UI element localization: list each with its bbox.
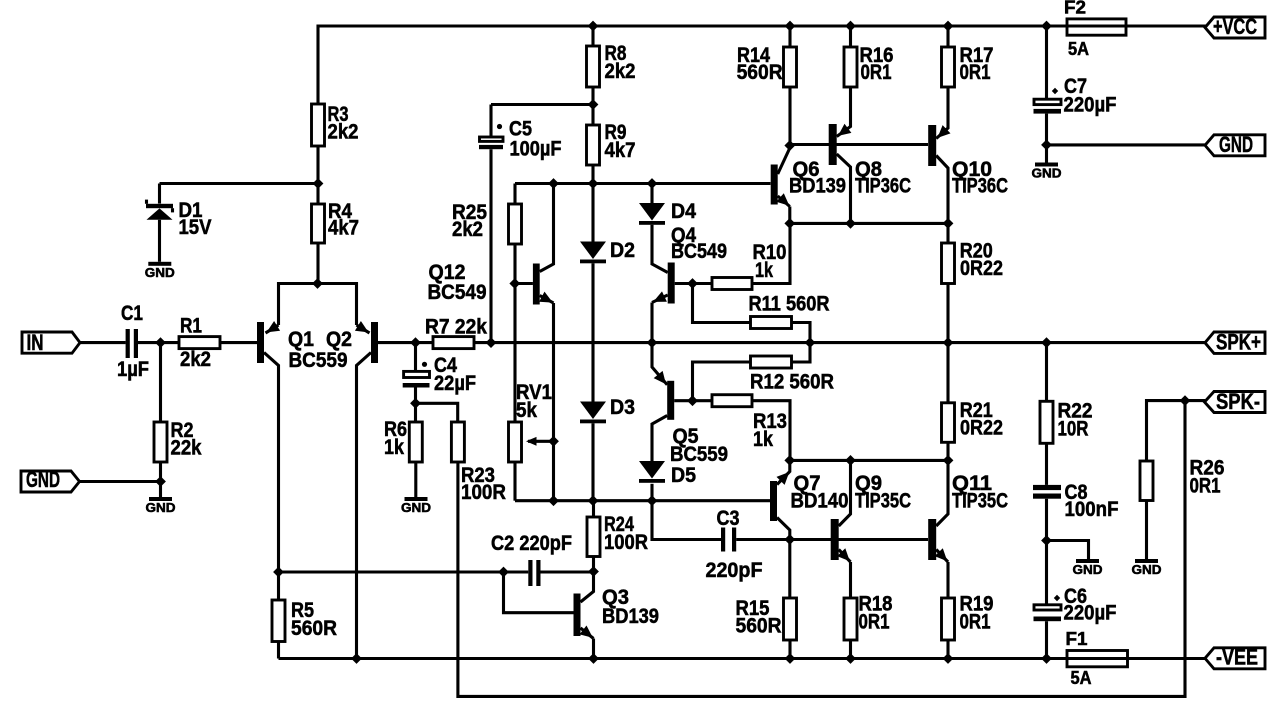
svg-text:2k2: 2k2 bbox=[605, 59, 636, 83]
ground below D1 bbox=[145, 262, 175, 280]
node wiper junction bbox=[548, 436, 559, 447]
node C4 junction bbox=[410, 337, 421, 348]
node D2 rail bbox=[588, 178, 599, 189]
wire bottom emitter rail bbox=[790, 459, 948, 462]
wire R20 top bbox=[946, 223, 949, 243]
svg-text:C2 220pF: C2 220pF bbox=[491, 531, 572, 555]
wire rail to D2 bbox=[591, 184, 594, 242]
diode D4 bbox=[639, 199, 696, 225]
svg-text:1k: 1k bbox=[755, 258, 773, 282]
resistor R15 bbox=[736, 540, 797, 641]
wire R2 column bbox=[159, 343, 162, 422]
node C6 rail bbox=[1041, 653, 1052, 664]
node C4/R6/R23 junction bbox=[410, 398, 421, 409]
wire R16 top bbox=[849, 26, 852, 47]
ground below R6 bbox=[401, 497, 431, 515]
svg-text:0R22: 0R22 bbox=[960, 415, 1003, 439]
node C8 ground junction bbox=[1041, 535, 1052, 546]
resistor R22 bbox=[1040, 398, 1093, 443]
wire R21 top bbox=[946, 343, 949, 403]
wire RV1 bottom bbox=[513, 462, 516, 501]
tag SPK+ bbox=[1205, 330, 1265, 355]
wire GND tag to R2 bbox=[80, 480, 161, 483]
svg-text:0R1: 0R1 bbox=[861, 60, 892, 84]
wire R11 jog bbox=[693, 284, 751, 323]
resistor R13 bbox=[693, 395, 791, 461]
wire R3 to junction bbox=[316, 146, 319, 184]
svg-text:D5: D5 bbox=[671, 463, 696, 487]
wire C2 to R24 node bbox=[541, 570, 594, 573]
resistor R7 bbox=[425, 315, 487, 349]
resistor R2 bbox=[154, 418, 202, 462]
transistor Q1 bbox=[257, 321, 352, 572]
node Q5 base junction bbox=[687, 395, 698, 406]
ground below C7 bbox=[1032, 145, 1062, 181]
wire R1 to Q1 base bbox=[219, 341, 257, 344]
wire F2 to VCC tag bbox=[1126, 24, 1206, 27]
node D5 rail bbox=[647, 495, 658, 506]
node Q1 collector junction bbox=[273, 567, 284, 578]
node R22 output junction bbox=[1041, 337, 1052, 348]
capacitor C4 bbox=[403, 343, 476, 404]
wire junction to R23 bbox=[416, 403, 458, 422]
svg-text:GND: GND bbox=[1219, 132, 1253, 157]
diode D3 bbox=[580, 395, 635, 423]
node D3 rail bbox=[588, 495, 599, 506]
svg-text:BD139: BD139 bbox=[602, 604, 659, 628]
wire R7 to feedback node bbox=[474, 341, 1206, 344]
node rail C7 bbox=[1041, 21, 1052, 32]
resistor R21 bbox=[942, 398, 1004, 442]
wire VEE rail bbox=[279, 657, 1068, 660]
svg-text:220µF: 220µF bbox=[1064, 601, 1117, 625]
capacitor C7 bbox=[1034, 74, 1117, 145]
wire R6 to ground bbox=[414, 462, 417, 497]
transistor Q2 bbox=[355, 321, 378, 659]
resistor R10 bbox=[693, 223, 791, 289]
svg-text:0R1: 0R1 bbox=[859, 609, 890, 633]
wire D4 to Q4 collector bbox=[652, 225, 668, 273]
svg-text:R7 22k: R7 22k bbox=[425, 315, 487, 339]
wire R8 to R9 bbox=[591, 87, 594, 125]
wire rail to D4 bbox=[650, 184, 653, 204]
wire VAS bottom rail bbox=[515, 499, 770, 502]
svg-text:F2: F2 bbox=[1064, 0, 1086, 18]
wire F1 to VEE tag bbox=[1128, 657, 1207, 660]
wire VCC rail top bbox=[318, 26, 1067, 104]
wire Q2 base to R7 bbox=[378, 341, 433, 344]
fuse F2 5A bbox=[1064, 0, 1126, 59]
tag IN bbox=[22, 330, 80, 355]
wire IN to C1 bbox=[80, 341, 126, 344]
resistor R5 bbox=[272, 572, 337, 642]
node D4 rail bbox=[647, 178, 658, 189]
svg-text:F1: F1 bbox=[1066, 629, 1088, 649]
svg-text:4k7: 4k7 bbox=[605, 138, 636, 162]
wire tail split bbox=[279, 284, 357, 326]
wire R2 to GND node bbox=[159, 462, 162, 497]
svg-text:TIP35C: TIP35C bbox=[855, 488, 911, 512]
node Q11 collector rail bbox=[943, 455, 954, 466]
wire D5 to rail bbox=[650, 484, 653, 501]
node R19 rail bbox=[943, 653, 954, 664]
wire D1 top bbox=[158, 184, 161, 204]
node Q3 emitter rail bbox=[588, 653, 599, 664]
svg-text:GND: GND bbox=[146, 500, 176, 515]
svg-text:D2: D2 bbox=[610, 238, 635, 262]
svg-text:0R22: 0R22 bbox=[960, 256, 1003, 280]
svg-text:560R: 560R bbox=[737, 60, 783, 84]
tag SPK- bbox=[1205, 389, 1266, 414]
resistor R19 bbox=[942, 591, 994, 640]
wire R5 bottom bbox=[277, 642, 280, 659]
potentiometer RV1 bbox=[509, 380, 553, 462]
transistor Q5 bbox=[652, 343, 728, 466]
wire R15 bottom bbox=[788, 640, 791, 659]
wire R19 bottom bbox=[946, 640, 949, 659]
wire top emitter rail bbox=[790, 222, 948, 225]
wire C2 line bbox=[279, 570, 529, 573]
wire C5 branch bbox=[491, 103, 593, 106]
svg-text:GND: GND bbox=[1132, 562, 1162, 577]
svg-text:C1: C1 bbox=[121, 301, 143, 325]
transistor Q6 bbox=[771, 148, 846, 223]
node R7/C5 junction bbox=[486, 337, 497, 348]
svg-text:0R1: 0R1 bbox=[960, 60, 991, 84]
svg-text:GND: GND bbox=[1032, 166, 1062, 181]
wire R18 bottom bbox=[849, 640, 852, 659]
svg-text:GND: GND bbox=[1073, 562, 1103, 577]
capacitor C3 bbox=[706, 506, 763, 582]
wire R26 to ground bbox=[1145, 501, 1148, 560]
node Q6 collector junction bbox=[784, 140, 795, 151]
node feedback junction bbox=[1180, 395, 1191, 406]
node rail R8 bbox=[588, 21, 599, 32]
svg-text:-VEE: -VEE bbox=[1216, 645, 1258, 670]
node C2 left junction bbox=[498, 567, 509, 578]
resistor R20 bbox=[942, 239, 1004, 284]
transistor Q4 bbox=[652, 223, 727, 343]
wire Q3 base jog bbox=[504, 572, 574, 613]
ground below R2 bbox=[146, 497, 176, 515]
svg-text:SPK-: SPK- bbox=[1216, 389, 1260, 414]
wire D3 to rail bbox=[591, 423, 594, 500]
resistor R1 bbox=[179, 313, 220, 371]
svg-text:4k7: 4k7 bbox=[328, 215, 359, 239]
diode D2 bbox=[580, 238, 635, 263]
transistor Q11 bbox=[928, 460, 1008, 598]
svg-text:GND: GND bbox=[401, 500, 431, 515]
svg-text:R11 560R: R11 560R bbox=[749, 291, 830, 315]
wire SPK- line bbox=[1147, 401, 1206, 461]
svg-text:0R1: 0R1 bbox=[960, 609, 991, 633]
svg-text:5A: 5A bbox=[1071, 668, 1092, 688]
wire R14 top bbox=[788, 26, 791, 47]
resistor R12 bbox=[693, 343, 835, 401]
transistor Q9 bbox=[831, 460, 911, 598]
svg-text:1µF: 1µF bbox=[117, 357, 149, 381]
svg-text:5k: 5k bbox=[516, 398, 537, 422]
resistor R8 bbox=[587, 41, 636, 87]
svg-text:BD139: BD139 bbox=[789, 173, 846, 197]
wire D1 to R3/R4 junction bbox=[160, 182, 319, 185]
capacitor C6 bbox=[1034, 584, 1117, 659]
ground below R26 bbox=[1132, 559, 1162, 577]
resistor R14 bbox=[737, 43, 797, 87]
svg-text:+VCC: +VCC bbox=[1213, 14, 1257, 39]
node rail R16 bbox=[845, 21, 856, 32]
node GND junction bbox=[155, 476, 166, 487]
svg-text:GND: GND bbox=[26, 467, 60, 492]
svg-text:C3: C3 bbox=[717, 506, 740, 530]
svg-text:TIP36C: TIP36C bbox=[855, 173, 911, 197]
resistor R11 bbox=[749, 291, 830, 342]
node Q9 collector rail bbox=[845, 455, 856, 466]
wire R20 to output bbox=[946, 284, 949, 343]
wire D2 to D3 bbox=[591, 263, 594, 401]
svg-text:BC549: BC549 bbox=[671, 239, 727, 263]
svg-text:100µF: 100µF bbox=[510, 136, 562, 160]
transistor Q8 bbox=[829, 87, 911, 223]
svg-text:SPK+: SPK+ bbox=[1216, 330, 1261, 355]
wire junction to R4 bbox=[316, 184, 319, 205]
svg-text:TIP35C: TIP35C bbox=[952, 488, 1008, 512]
node D4 chain output bbox=[647, 337, 658, 348]
wire R23 to feedback line bbox=[458, 401, 1185, 697]
svg-text:100nF: 100nF bbox=[1065, 497, 1119, 521]
svg-text:1k: 1k bbox=[384, 435, 404, 459]
node Q7 emitter rail bbox=[784, 455, 795, 466]
svg-text:100R: 100R bbox=[461, 480, 506, 504]
resistor R23 bbox=[451, 422, 506, 504]
node Q6 emitter rail bbox=[784, 218, 795, 229]
tag GND left bbox=[21, 467, 80, 492]
wiper RV1 bbox=[526, 437, 554, 446]
svg-text:BC549: BC549 bbox=[428, 280, 487, 304]
svg-text:IN: IN bbox=[27, 330, 44, 355]
wire R17 top bbox=[946, 26, 949, 47]
transistor Q3 bbox=[574, 572, 660, 659]
resistor R18 bbox=[844, 591, 893, 640]
resistor R9 bbox=[587, 120, 636, 165]
svg-text:22k: 22k bbox=[171, 435, 202, 459]
wire R9 to rail bbox=[591, 165, 594, 184]
diode D5 bbox=[639, 461, 696, 487]
wire R24 bottom bbox=[592, 557, 595, 572]
wire R25 to base node bbox=[513, 244, 516, 422]
node rail R14 bbox=[785, 21, 796, 32]
node tail junction bbox=[312, 278, 323, 289]
resistor R25 bbox=[452, 200, 522, 244]
svg-text:R12 560R: R12 560R bbox=[750, 369, 834, 393]
svg-text:220pF: 220pF bbox=[706, 558, 763, 582]
svg-text:TIP36C: TIP36C bbox=[952, 173, 1008, 197]
node R15 rail bbox=[785, 653, 796, 664]
svg-text:560R: 560R bbox=[736, 613, 782, 637]
svg-text:5A: 5A bbox=[1068, 39, 1089, 59]
resistor R4 bbox=[312, 199, 360, 243]
ground jog from C8 bbox=[1047, 541, 1103, 578]
node Q12 collector rail bbox=[548, 178, 559, 189]
transistor Q7 bbox=[770, 460, 849, 539]
svg-text:D4: D4 bbox=[671, 199, 696, 223]
node Q2 collector rail bbox=[351, 653, 362, 664]
svg-text:D3: D3 bbox=[610, 395, 635, 419]
wire C3 to Q9 base bbox=[736, 538, 790, 541]
svg-text:15V: 15V bbox=[179, 215, 213, 239]
wire to GND tag bbox=[1047, 143, 1207, 146]
node R24/Q3 collector junction bbox=[588, 566, 599, 577]
transistor Q10 bbox=[928, 87, 1008, 223]
wire C1 to R1 bbox=[138, 341, 179, 344]
tag -VEE bbox=[1205, 645, 1265, 670]
node Q12 base junction bbox=[509, 278, 520, 289]
transistor Q12 bbox=[428, 184, 554, 501]
capacitor C1 bbox=[117, 301, 149, 381]
svg-text:BC559: BC559 bbox=[289, 348, 348, 372]
capacitor C2 bbox=[491, 531, 572, 586]
tag +VCC bbox=[1205, 14, 1265, 39]
wire R22 top bbox=[1045, 343, 1048, 402]
node C1/R2 junction bbox=[155, 337, 166, 348]
wire C8 to ground node bbox=[1045, 499, 1048, 605]
svg-text:560R: 560R bbox=[291, 616, 337, 640]
wire Q9/Q11 base line bbox=[790, 538, 928, 541]
resistor R24 bbox=[587, 512, 648, 557]
svg-text:10R: 10R bbox=[1058, 416, 1089, 440]
svg-text:100R: 100R bbox=[604, 530, 648, 554]
svg-text:2k2: 2k2 bbox=[328, 119, 359, 143]
wire R21 to rail bbox=[946, 442, 949, 460]
node C7 ground junction bbox=[1041, 140, 1052, 151]
node rail R17 bbox=[943, 21, 954, 32]
node R18 rail bbox=[845, 653, 856, 664]
wire R22 to C8 bbox=[1045, 443, 1048, 485]
svg-text:GND: GND bbox=[145, 265, 175, 280]
fuse F1 5A bbox=[1066, 629, 1128, 688]
wire R8 top bbox=[591, 26, 594, 46]
resistor R17 bbox=[942, 43, 994, 87]
wire Q8/Q10 base line bbox=[790, 143, 928, 146]
node Q7 collector junction bbox=[784, 534, 795, 545]
tag GND right bbox=[1205, 132, 1265, 157]
wire C7 top bbox=[1045, 26, 1048, 98]
svg-text:220µF: 220µF bbox=[1064, 92, 1117, 116]
resistor R16 bbox=[844, 43, 894, 87]
wire R4 to tail bbox=[316, 243, 319, 284]
capacitor C8 bbox=[1033, 480, 1119, 521]
node R11/R12 output junction bbox=[805, 337, 816, 348]
wire R24 column bbox=[592, 501, 595, 517]
wire R25 top bbox=[513, 184, 516, 205]
svg-text:0R1: 0R1 bbox=[1190, 473, 1221, 497]
svg-text:2k2: 2k2 bbox=[180, 347, 211, 371]
node R20/R21 output junction bbox=[943, 337, 954, 348]
wire VAS top rail bbox=[515, 182, 771, 185]
wire R14 to Q6 collector bbox=[788, 87, 791, 146]
node Q8 collector rail bbox=[845, 218, 856, 229]
node R8/R9/C5 junction bbox=[588, 99, 599, 110]
diode D1 15V zener bbox=[146, 198, 212, 262]
node Q12 emitter rail bbox=[548, 495, 559, 506]
resistor R6 bbox=[384, 403, 422, 462]
svg-text:22µF: 22µF bbox=[434, 371, 476, 395]
wire C3 branch bbox=[652, 501, 721, 540]
resistor R26 bbox=[1140, 455, 1225, 500]
svg-text:R1: R1 bbox=[180, 313, 202, 337]
svg-text:2k2: 2k2 bbox=[452, 217, 483, 241]
node D1/R4 junction bbox=[313, 178, 324, 189]
svg-text:BD140: BD140 bbox=[791, 488, 849, 512]
svg-text:1k: 1k bbox=[753, 427, 773, 451]
resistor R3 bbox=[312, 102, 359, 146]
node Q10 collector rail bbox=[943, 218, 954, 229]
node Q4 base junction bbox=[687, 278, 698, 289]
capacitor C5 bbox=[479, 105, 562, 343]
